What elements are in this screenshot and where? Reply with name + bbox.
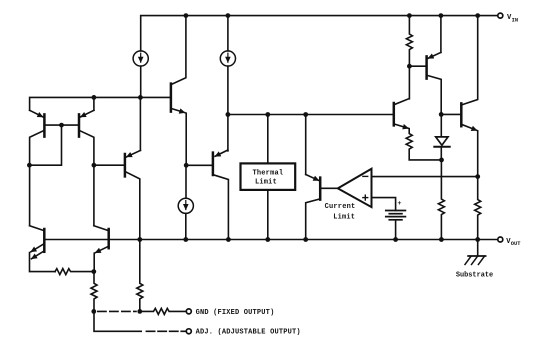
svg-text:ADJ. (ADJUSTABLE OUTPUT): ADJ. (ADJUSTABLE OUTPUT) (196, 329, 301, 337)
node upper-left rail x140 (138, 95, 143, 100)
diode D1 (434, 114, 449, 159)
op-amp U2 (error amplifier) (338, 169, 372, 207)
transistor Q1 (left mirror PNP) (30, 110, 45, 225)
resistor R3 (Q9 emitter) (406, 129, 441, 160)
terminal ADJ (186, 329, 191, 334)
svg-text:Limit: Limit (333, 214, 355, 222)
svg-text:Current: Current (325, 203, 356, 211)
node upper-left rail x94 (92, 95, 97, 100)
node R1 / R6 junction (91, 269, 96, 274)
wire op-amp inverting input (372, 176, 478, 178)
svg-text:Thermal: Thermal (252, 169, 283, 177)
node second rail x228 (226, 112, 231, 117)
resistor R6 (x94 vertical) (91, 272, 97, 312)
transistor Q9 (NPN, right) (394, 66, 410, 128)
thermal limit box U1 (241, 163, 296, 190)
node bus x268 (265, 237, 270, 242)
wire rail to thermal limit box (267, 115, 269, 164)
wire I2 to second rail (227, 66, 229, 114)
resistor R8 (GND output) (140, 308, 187, 314)
wire I2 node to Q8 emitter (227, 115, 229, 151)
current source I3 (178, 165, 193, 239)
node bus x140 (137, 237, 142, 242)
transistor Q7 (NPN, main gain stage) (171, 16, 186, 166)
node junction top rail x409 (407, 13, 412, 18)
node junction top rail x441 (439, 13, 444, 18)
label thermal limit (252, 169, 283, 186)
resistor R4 (x441) (438, 160, 444, 240)
node second rail x306 (303, 112, 308, 117)
node Q7 emitter / Q8 base (184, 163, 189, 168)
wire Q2 emitter drop (93, 97, 95, 110)
node inverting input tap (475, 174, 480, 179)
label VOUT (506, 238, 521, 247)
node junction top rail x478 (475, 13, 480, 18)
transistor Q3 (NPN double emitter, lower left) (30, 226, 56, 272)
resistor R7 (x140 vertical) (137, 240, 143, 312)
wire VOUT bus (44, 239, 498, 241)
node bus x306 (303, 237, 308, 242)
node junction top rail x186 (184, 13, 189, 18)
wire thermal limit box to bus (267, 190, 269, 240)
wire op-amp non-inverting input (372, 198, 396, 211)
svg-text:+: + (398, 200, 402, 207)
resistor R5 (x478) (475, 177, 481, 240)
wire mirror base rail (44, 124, 79, 126)
transistor Q10 (current limit PNP) (306, 115, 338, 240)
transistor Q5 (PNP, base from mirror) (94, 150, 140, 239)
label current limit (325, 203, 356, 221)
transistor Q2 (right mirror PNP) (79, 110, 94, 225)
wire dashed ADJ link (146, 330, 186, 332)
current source I1 (133, 51, 148, 66)
node bus x396 (393, 237, 398, 242)
node bus x441 (439, 237, 444, 242)
svg-text:Limit: Limit (255, 179, 277, 187)
transistor Q4 (NPN, lower left) (94, 226, 109, 272)
node diode cathode (439, 158, 444, 163)
transistor Q8 (PNP level shift) (186, 150, 228, 240)
battery BT1 (voltage reference) (386, 211, 406, 240)
wire dashed GND link (98, 310, 136, 312)
transistor Q11 (PNP, upper right) (409, 16, 441, 115)
wire I1 node to Q5 emitter (139, 97, 141, 150)
wire I1 to left rail node (140, 66, 142, 97)
terminal VOUT (498, 237, 503, 242)
node right collector column (92, 163, 97, 168)
terminal VIN (498, 13, 503, 18)
svg-text:OUT: OUT (511, 241, 521, 247)
node second rail x268 (265, 112, 270, 117)
node bus x478 (475, 237, 480, 242)
node left collector column (27, 163, 32, 168)
node bus x228 (226, 237, 231, 242)
svg-text:IN: IN (512, 18, 518, 24)
node GND row right (137, 309, 142, 314)
terminal GND (186, 309, 191, 314)
resistor R2 (top right) (406, 16, 412, 67)
node bus x186 (183, 237, 188, 242)
wire second rail (228, 114, 394, 116)
node Q12 base (439, 112, 444, 117)
svg-text:Substrate: Substrate (456, 271, 493, 279)
svg-text:GND (FIXED OUTPUT): GND (FIXED OUTPUT) (196, 309, 275, 317)
label VIN (507, 14, 518, 23)
wire top VIN rail (141, 16, 498, 51)
node base rail (59, 123, 64, 128)
resistor R1 (horizontal) (55, 269, 94, 275)
node GND row left (91, 309, 96, 314)
wire base rail to diode connection (29, 125, 61, 165)
substrate ground (465, 240, 486, 265)
wire ADJ output (94, 311, 141, 331)
node R2 bottom / Q11 base (407, 64, 412, 69)
wire upper-left rail (30, 97, 171, 110)
node junction top rail x228 (226, 13, 231, 18)
current source I2 (220, 16, 235, 67)
transistor Q12 (NPN output driver) (441, 16, 478, 177)
